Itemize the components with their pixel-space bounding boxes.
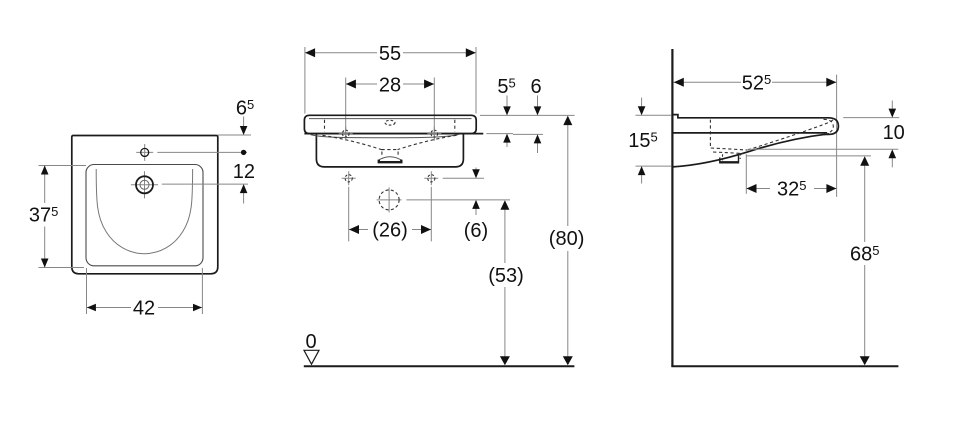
basin body (front elevation) <box>316 134 463 167</box>
deck profile (side) <box>672 115 838 135</box>
drain stub (side) <box>720 156 739 162</box>
dot terminator at faucet level <box>241 150 246 155</box>
dimension 10 (bowl depth) <box>748 101 899 168</box>
overflow centerlines <box>131 171 158 198</box>
faucet hole <box>141 148 149 156</box>
dimension 28 (faucet hole spacing) <box>346 78 435 141</box>
faucet hole centerlines <box>136 144 153 161</box>
hidden front lip (dashed) <box>824 119 834 134</box>
basin rim line under deck <box>311 134 460 137</box>
mounting hole right <box>424 171 438 185</box>
dimension 55 (overall width) <box>305 47 476 114</box>
dimension 37-5 (left, bowl depth) <box>39 166 87 268</box>
datum triangle <box>304 350 319 364</box>
wall line <box>671 49 673 367</box>
svg-text:42: 42 <box>133 297 155 319</box>
hidden drain hole sides (dashed) <box>723 153 741 160</box>
dimension 6-5 (top edge to faucet) <box>157 117 251 204</box>
hidden bowl contour (dashed) <box>323 135 457 149</box>
dimension (26) (mounting hole spacing) <box>349 187 432 242</box>
svg-text:28: 28 <box>379 74 401 96</box>
deck bottom edge (side) <box>672 132 827 134</box>
deck (front elevation) <box>304 115 476 133</box>
dimension 42 (bowl width) <box>87 268 203 314</box>
mounting hole left <box>342 171 356 185</box>
basin inner rim (plan) <box>86 165 203 266</box>
drain (dashed circle) <box>377 187 402 212</box>
svg-text:(6): (6) <box>464 220 488 242</box>
hidden inner walls (dashed) <box>325 120 455 132</box>
svg-text:12: 12 <box>233 161 255 183</box>
hidden drain stub (dashed) <box>382 152 398 156</box>
overflow bump arc <box>379 157 402 160</box>
svg-text:(53): (53) <box>488 265 524 287</box>
svg-text:0: 0 <box>305 331 316 353</box>
svg-text:6: 6 <box>530 76 541 98</box>
overflow inner circle <box>140 180 149 189</box>
dimension 68-5 (underside height) <box>746 156 871 358</box>
hidden bowl front slope (dashed) <box>748 120 833 150</box>
basin underside S-curve <box>672 134 829 167</box>
svg-text:55: 55 <box>379 43 401 65</box>
dimension 32-5 (drain to front) <box>746 154 836 194</box>
bowl contour <box>96 169 192 254</box>
svg-text:(80): (80) <box>549 228 585 250</box>
overflow slot <box>379 160 402 163</box>
drain hole on deck (dashed ellipse) <box>385 120 395 125</box>
basin outer body (plan) <box>72 136 218 274</box>
faucet hole marks on deck <box>339 127 353 141</box>
overflow outer circle <box>136 176 153 193</box>
dimension 12 (faucet to overflow) <box>240 184 248 193</box>
dimension (53) (drain height) <box>504 206 506 358</box>
deck bottom edge extended <box>304 133 483 135</box>
dimension 52-5 (overall depth) <box>674 75 837 197</box>
svg-text:10: 10 <box>883 122 905 144</box>
hidden bowl bottom (dashed) <box>711 148 748 150</box>
dimension 5-5 (deck thickness) <box>480 96 575 154</box>
dimension (80) (rim height) <box>567 122 569 358</box>
ground line (right view) <box>671 365 898 367</box>
deck inner top line <box>309 118 472 120</box>
dimension 6 (deck with rim lip) <box>534 106 542 115</box>
hidden bowl rear wall (dashed) <box>709 120 711 147</box>
dimension (6) (mounting holes to drain) <box>406 168 510 216</box>
dimension 15-5 (front apron height) <box>636 98 672 184</box>
svg-text:(26): (26) <box>372 219 408 241</box>
ground line (middle view) <box>304 365 575 367</box>
